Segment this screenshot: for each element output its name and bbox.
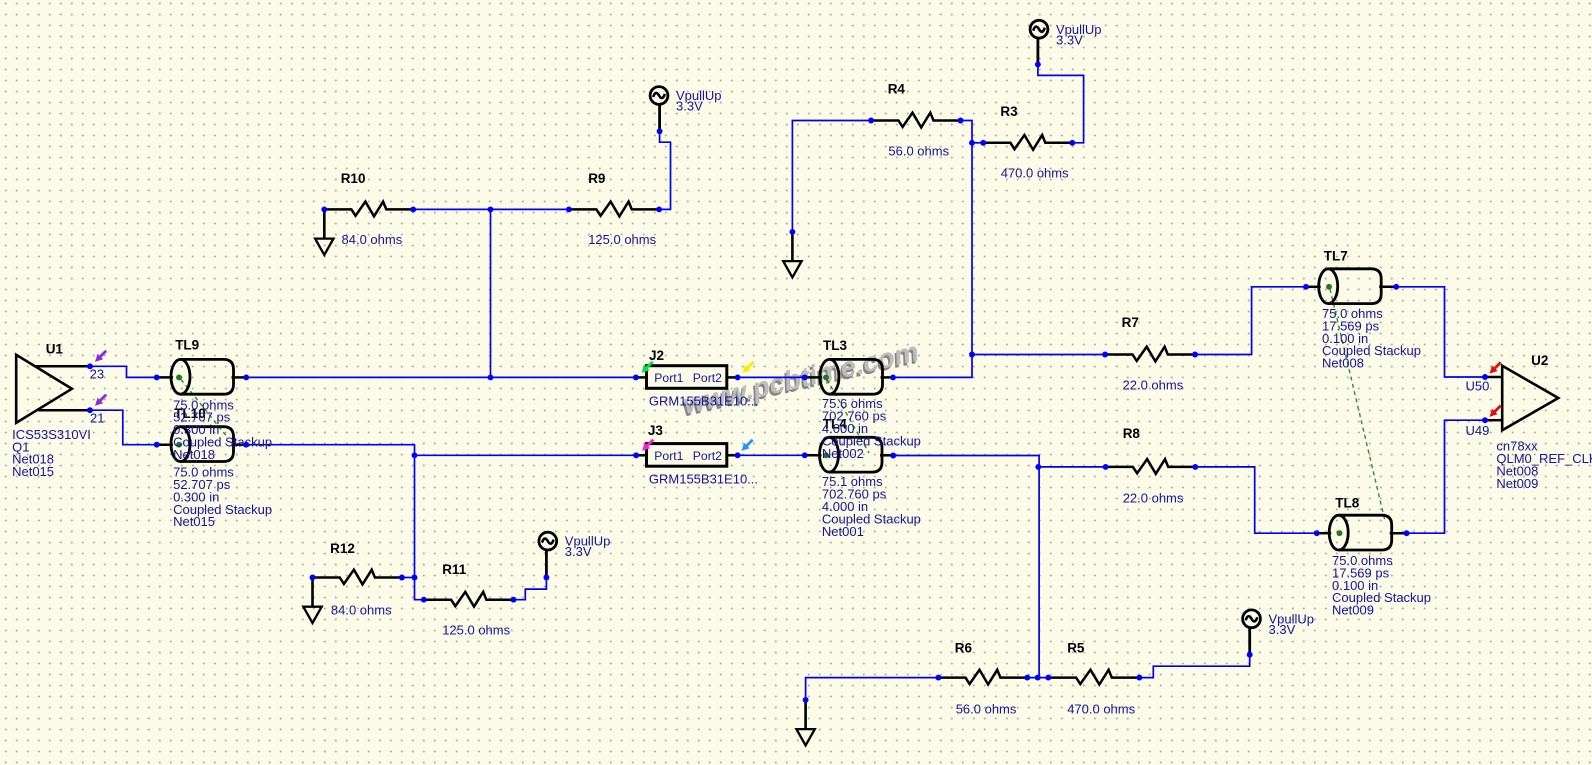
svg-text:U1: U1 <box>46 342 64 357</box>
svg-text:Port2: Port2 <box>693 371 722 385</box>
svg-text:125.0 ohms: 125.0 ohms <box>588 232 656 247</box>
svg-text:3.3V: 3.3V <box>1269 622 1296 637</box>
svg-text:Net001: Net001 <box>822 524 864 539</box>
svg-text:TL9: TL9 <box>175 338 199 353</box>
svg-text:R3: R3 <box>1000 104 1018 119</box>
svg-text:R10: R10 <box>341 171 366 186</box>
svg-text:TL7: TL7 <box>1324 248 1348 263</box>
svg-text:Net018: Net018 <box>173 447 215 462</box>
svg-text:56.0 ohms: 56.0 ohms <box>956 702 1017 717</box>
svg-text:R9: R9 <box>588 171 605 186</box>
svg-text:22.0 ohms: 22.0 ohms <box>1123 491 1184 506</box>
svg-text:U49: U49 <box>1466 423 1490 438</box>
svg-text:GRM155B31E10...: GRM155B31E10... <box>649 471 758 486</box>
svg-text:Port2: Port2 <box>693 449 722 463</box>
svg-text:Net009: Net009 <box>1332 603 1374 618</box>
svg-text:R8: R8 <box>1123 426 1141 441</box>
svg-text:J2: J2 <box>649 348 664 363</box>
svg-text:22.0 ohms: 22.0 ohms <box>1123 377 1184 392</box>
svg-text:Net009: Net009 <box>1496 476 1538 491</box>
svg-text:J3: J3 <box>648 423 664 438</box>
svg-text:R5: R5 <box>1067 640 1085 655</box>
svg-text:U50: U50 <box>1466 379 1490 394</box>
svg-text:Net002: Net002 <box>822 446 864 461</box>
svg-text:TL8: TL8 <box>1335 496 1359 511</box>
svg-text:23: 23 <box>90 366 104 381</box>
svg-text:3.3V: 3.3V <box>1056 32 1083 47</box>
svg-text:Net008: Net008 <box>1322 356 1364 371</box>
svg-text:3.3V: 3.3V <box>676 99 703 114</box>
svg-text:84.0 ohms: 84.0 ohms <box>331 603 392 618</box>
svg-text:56.0 ohms: 56.0 ohms <box>888 143 949 158</box>
svg-text:Port1: Port1 <box>654 449 683 463</box>
svg-text:GRM155B31E10...: GRM155B31E10... <box>649 394 758 409</box>
svg-text:R11: R11 <box>442 562 467 577</box>
svg-text:R12: R12 <box>330 541 355 556</box>
svg-text:U2: U2 <box>1531 353 1548 368</box>
svg-text:R7: R7 <box>1122 315 1139 330</box>
svg-text:TL3: TL3 <box>823 338 847 353</box>
svg-text:3.3V: 3.3V <box>565 544 592 559</box>
svg-text:470.0 ohms: 470.0 ohms <box>1001 165 1069 180</box>
svg-text:125.0 ohms: 125.0 ohms <box>442 622 510 637</box>
svg-text:Port1: Port1 <box>654 371 683 385</box>
svg-text:R4: R4 <box>888 82 906 97</box>
svg-text:Net015: Net015 <box>173 514 215 529</box>
svg-text:Net015: Net015 <box>12 464 54 479</box>
svg-text:470.0 ohms: 470.0 ohms <box>1067 702 1135 717</box>
svg-text:21: 21 <box>90 410 104 425</box>
svg-text:R6: R6 <box>955 640 973 655</box>
svg-text:84.0 ohms: 84.0 ohms <box>342 232 403 247</box>
